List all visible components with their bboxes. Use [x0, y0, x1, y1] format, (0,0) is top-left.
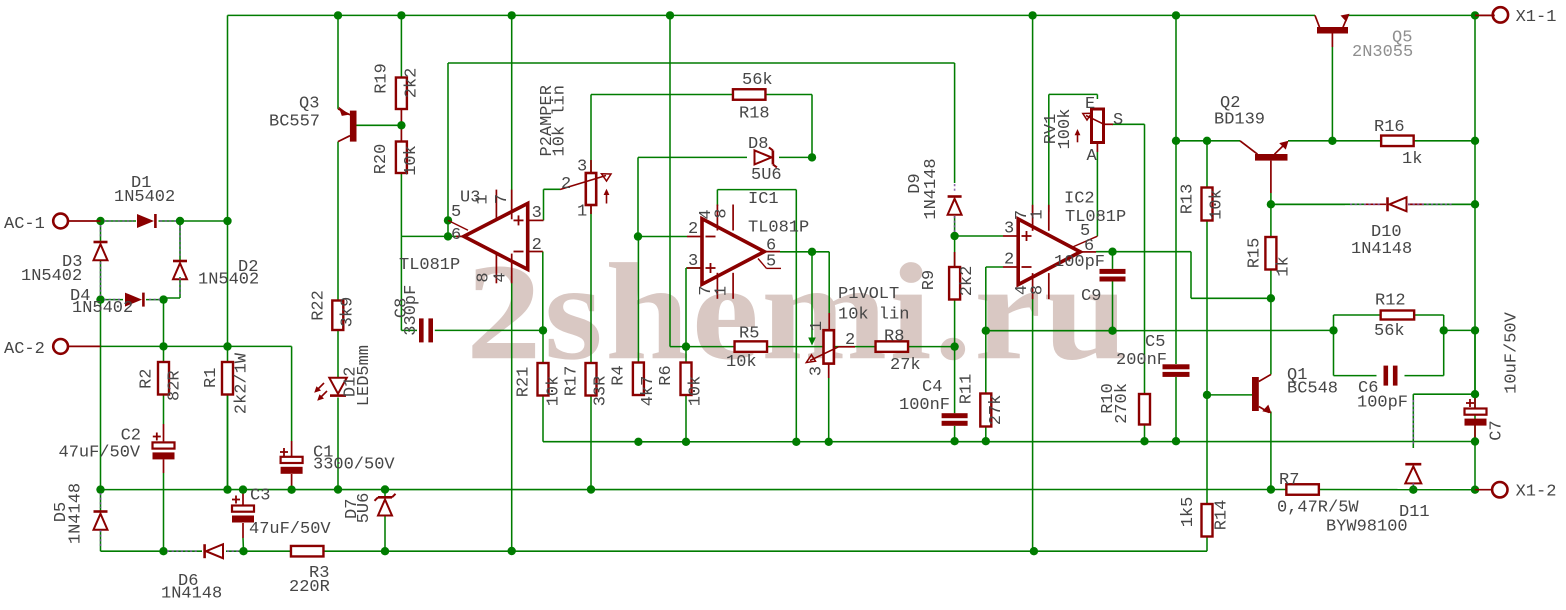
- diode D3: [94, 225, 108, 296]
- wire RV1 S to R10: [1112, 124, 1145, 394]
- junction 0V D5: [96, 485, 104, 493]
- wire R18 right to D8 cathode junction: [766, 95, 812, 158]
- junction mid rail IC1 pin4: [792, 438, 800, 446]
- svg-text:X1-2: X1-2: [1516, 483, 1557, 502]
- svg-text:A: A: [1087, 147, 1098, 166]
- resistor R12: [1381, 311, 1415, 320]
- diode D1: [104, 214, 176, 228]
- label RV1: [1042, 109, 1075, 150]
- svg-text:R5: R5: [739, 325, 759, 344]
- wire IC2 pin2 to R11: [986, 267, 1003, 394]
- svg-text:3k9: 3k9: [339, 297, 358, 328]
- wire P2AMPER pin3 to R18: [591, 95, 733, 174]
- wire C5 bottom: [1175, 377, 1177, 441]
- label D4: [70, 287, 133, 318]
- label R3: [289, 564, 330, 597]
- label R4: [610, 365, 659, 406]
- wire P2 wiper to U3 pin3: [544, 189, 561, 220]
- junction IC2 pin3 D9: [950, 232, 958, 240]
- wire R12/C6 box left: [1333, 315, 1335, 376]
- wire U3 output node to C8: [401, 236, 417, 330]
- svg-text:R14: R14: [1213, 500, 1232, 531]
- svg-text:56k: 56k: [742, 71, 773, 90]
- svg-text:Q3: Q3: [299, 95, 319, 114]
- wire X1-1 right column: [1474, 15, 1476, 489]
- wire R5 right to P1 wiper and R8: [767, 346, 876, 348]
- pin P1 numbers: [808, 321, 856, 376]
- wire C3 column: [242, 490, 245, 552]
- label C3: [249, 487, 331, 540]
- label R2: [138, 368, 185, 401]
- svg-text:3: 3: [532, 204, 542, 223]
- svg-text:1: 1: [808, 321, 827, 331]
- wire R12 row: [1334, 314, 1444, 316]
- diode D6: [167, 544, 240, 558]
- label R16: [1374, 118, 1422, 169]
- diode D9: [948, 184, 962, 233]
- wire Q1 base to R14 node: [1207, 394, 1252, 396]
- resistor R1: [222, 362, 233, 395]
- junction Q2 base R15: [1267, 200, 1275, 208]
- resistor R3: [291, 546, 324, 557]
- svg-text:R12: R12: [1375, 292, 1406, 311]
- op-amp IC1: [687, 205, 781, 299]
- capacitor C2: [153, 433, 175, 460]
- wire R1 column: [227, 347, 229, 363]
- pin P2 numbers: [561, 158, 587, 222]
- svg-text:3: 3: [577, 158, 587, 177]
- label D10: [1351, 223, 1412, 259]
- capacitor C5: [1163, 364, 1190, 377]
- svg-text:47uF/50V: 47uF/50V: [59, 444, 141, 463]
- junction D11 top branch: [1471, 390, 1479, 398]
- svg-text:200nF: 200nF: [1116, 351, 1167, 370]
- label D3: [21, 253, 82, 286]
- junction R13 top: [1203, 137, 1211, 145]
- label Q5: [1352, 29, 1413, 63]
- svg-text:P1VOLT: P1VOLT: [838, 285, 899, 304]
- svg-text:1N5402: 1N5402: [114, 188, 175, 207]
- svg-text:1: 1: [713, 286, 732, 296]
- wire R6 column to mid rail: [685, 395, 687, 442]
- svg-text:1N5402: 1N5402: [21, 267, 82, 286]
- label U3 value: [399, 256, 460, 275]
- svg-text:R1: R1: [202, 368, 221, 388]
- label D6: [161, 572, 222, 604]
- terminal X1-1: [1475, 7, 1508, 22]
- resistor R16: [1381, 136, 1414, 147]
- junction AC-1 left: [96, 217, 104, 225]
- svg-text:BC548: BC548: [1287, 380, 1338, 399]
- wire C8 right to R21/U3 pin2 node: [435, 329, 543, 331]
- svg-text:100pF: 100pF: [1357, 394, 1408, 413]
- junction U3 pin5: [444, 216, 452, 224]
- label D9: [906, 158, 941, 219]
- svg-text:1N4148: 1N4148: [67, 483, 86, 544]
- wire IC1 pin2 stub net: [638, 236, 687, 238]
- wire U3 pin7 supply: [511, 15, 513, 210]
- svg-text:1k: 1k: [1275, 256, 1294, 276]
- wire U3 output wire: [401, 235, 456, 237]
- svg-text:5: 5: [451, 203, 461, 222]
- wire 0V rail right of R7: [1319, 489, 1492, 491]
- label C1: [313, 444, 395, 475]
- wire D5 column: [100, 490, 102, 552]
- junction 0V D11: [1409, 486, 1417, 494]
- label C5: [1116, 333, 1167, 370]
- svg-text:C4: C4: [922, 378, 942, 397]
- resistor R6: [681, 363, 692, 396]
- svg-text:BYW98100: BYW98100: [1326, 518, 1408, 537]
- resistor R11: [980, 394, 991, 427]
- junction mid rail C5: [1172, 437, 1180, 445]
- wire U3 output feed to D9 (horizontal y=63): [448, 62, 955, 64]
- svg-text:2: 2: [561, 175, 571, 194]
- wire bridge right column D2: [164, 221, 181, 298]
- wire R11 bottom: [985, 427, 987, 442]
- wire R13 column: [1206, 141, 1208, 395]
- diode D2: [173, 226, 187, 294]
- svg-text:1: 1: [577, 203, 587, 222]
- junction AC-1 rail: [223, 217, 231, 225]
- resistor R2: [158, 362, 169, 395]
- svg-text:IC2: IC2: [1064, 190, 1095, 209]
- wire RV1 A to IC2 pin5: [1096, 152, 1098, 236]
- wire R22 to LED D12: [337, 330, 339, 377]
- wire 0V rail: [101, 489, 1287, 491]
- svg-text:R18: R18: [739, 105, 770, 124]
- wire D7 column: [384, 490, 386, 552]
- wire C7 bottom: [1474, 425, 1476, 442]
- wire R2 column: [163, 346, 165, 441]
- junction top rail IC2 pin7: [1028, 11, 1036, 19]
- label R15: [1246, 238, 1294, 277]
- wire D11 branch: [1413, 394, 1475, 448]
- wire vertical x954.6 down to D9: [954, 63, 956, 183]
- resistor R4: [633, 363, 644, 396]
- svg-text:5U6: 5U6: [751, 166, 782, 185]
- junction AC-2 R2: [159, 342, 167, 350]
- label R21: [515, 367, 564, 407]
- svg-text:X1-1: X1-1: [1516, 8, 1557, 27]
- svg-text:R17: R17: [563, 366, 582, 397]
- label C7: [1488, 311, 1522, 440]
- resistor R14: [1202, 504, 1213, 537]
- svg-text:IC1: IC1: [748, 190, 779, 209]
- diode D11: [1405, 400, 1421, 488]
- svg-text:3: 3: [688, 252, 698, 271]
- junction mid rail R6: [682, 438, 690, 446]
- svg-text:3: 3: [1004, 220, 1014, 239]
- wire x670 from top rail down to R5/R6 net: [669, 15, 671, 346]
- junction bottom rail D7: [381, 547, 389, 555]
- junction R12 box left: [1329, 326, 1337, 334]
- svg-text:1: 1: [474, 194, 493, 204]
- label P1VOLT: [838, 285, 909, 325]
- junction mid rail R11: [982, 437, 990, 445]
- svg-text:BC557: BC557: [269, 113, 320, 132]
- wire U3 pin2 column: [542, 252, 544, 331]
- label AC-2: [4, 340, 45, 359]
- svg-text:2: 2: [1004, 251, 1014, 270]
- svg-text:270k: 270k: [1113, 383, 1132, 424]
- junction 0V Q1 emitter: [1267, 485, 1275, 493]
- label Q1: [1287, 366, 1338, 399]
- potentiometer P1VOLT: [806, 313, 855, 378]
- wire IC2 minus net junction to C9 net: [986, 330, 1113, 332]
- wire D9 bottom to IC2 pin3: [955, 216, 1003, 267]
- svg-text:R20: R20: [372, 144, 391, 175]
- svg-text:R7: R7: [1279, 471, 1299, 490]
- svg-text:TL081P: TL081P: [1065, 208, 1126, 227]
- wire bottom negative rail: [101, 550, 1034, 552]
- svg-text:8: 8: [713, 208, 732, 218]
- svg-text:10k lin: 10k lin: [550, 85, 569, 156]
- junction IC2 minus net: [982, 327, 990, 335]
- potentiometer P2AMPER: [560, 160, 611, 214]
- svg-text:2k2: 2k2: [958, 266, 977, 297]
- wire IC1 output: [780, 251, 812, 253]
- svg-text:S: S: [1113, 111, 1123, 130]
- svg-text:1N5402: 1N5402: [198, 271, 259, 290]
- wire D12 to 0V rail: [337, 398, 339, 490]
- wire x1176 from top rail to C5: [1175, 15, 1177, 364]
- svg-text:10k: 10k: [1208, 189, 1227, 220]
- resistor R10: [1139, 394, 1150, 425]
- resistor R18: [733, 89, 766, 100]
- wire P1 pin3 bottom: [828, 378, 830, 442]
- wire IC2 output to C9 and Q1 collector net: [1096, 252, 1271, 299]
- junction top rail U3 pin7: [508, 11, 516, 19]
- junction Q5 base: [1328, 137, 1336, 145]
- svg-text:10k: 10k: [402, 145, 421, 176]
- wire C4 column: [954, 347, 956, 442]
- wire R17 column: [590, 205, 592, 490]
- svg-text:2: 2: [532, 236, 542, 255]
- label P2AMPER: [538, 85, 570, 156]
- svg-text:100nF: 100nF: [899, 396, 950, 415]
- label U3: [460, 189, 480, 208]
- wire R19-R20 base node: [400, 110, 402, 142]
- label D2: [198, 258, 259, 290]
- led D12: [314, 378, 347, 401]
- label D1: [114, 174, 175, 207]
- diode D8 zener: [755, 147, 777, 167]
- wire R1 bottom: [227, 395, 229, 490]
- svg-text:4k7: 4k7: [639, 376, 658, 407]
- wire C6 row: [1334, 375, 1444, 377]
- wire R15 bottom to IC2 out node: [1270, 270, 1272, 299]
- wire IC1 pin3 to R6 top: [686, 268, 702, 363]
- capacitor C1: [280, 448, 303, 474]
- label R7: [1277, 471, 1359, 518]
- junction R8 right: [950, 342, 958, 350]
- wire R14 column: [1034, 395, 1207, 551]
- wire R12/C6 box right: [1443, 315, 1445, 376]
- terminal AC-1: [53, 214, 100, 229]
- wire arrow into P1 wiper: [808, 252, 816, 346]
- svg-text:1k: 1k: [1402, 150, 1422, 169]
- wire R9 stub top: [954, 252, 956, 267]
- svg-text:E: E: [1085, 95, 1095, 114]
- junction bottom rail C3: [239, 547, 247, 555]
- svg-text:2N3055: 2N3055: [1352, 43, 1413, 62]
- svg-text:C3: C3: [250, 487, 270, 506]
- resistor R20: [396, 142, 407, 174]
- wire AC-2 net: [101, 345, 292, 347]
- label C8: [393, 285, 421, 336]
- svg-text:R11: R11: [958, 374, 977, 405]
- wire C7 top: [1474, 330, 1476, 408]
- label Q3: [269, 95, 320, 132]
- pin IC2 numbers: [1004, 209, 1094, 295]
- svg-text:AC-2: AC-2: [4, 340, 45, 359]
- label C6: [1357, 379, 1408, 413]
- label R18: [739, 71, 773, 124]
- junction 0V X1-2: [1471, 486, 1479, 494]
- wire Q1 collector: [1270, 298, 1272, 374]
- svg-text:R2: R2: [138, 368, 157, 388]
- resistor R13: [1202, 188, 1213, 221]
- label C4: [899, 378, 950, 415]
- wire left vertical from top rail to 0V rail: [227, 15, 229, 489]
- wire R21 column: [543, 330, 638, 441]
- diode D4: [104, 293, 160, 307]
- wire R19 top: [400, 15, 402, 77]
- wire bridge left column: [100, 221, 102, 490]
- svg-text:3300/50V: 3300/50V: [313, 456, 395, 475]
- svg-text:R4: R4: [610, 365, 629, 385]
- diode D5: [94, 493, 108, 548]
- junction mid rail C4: [950, 437, 958, 445]
- junction U3 pin6: [444, 232, 452, 240]
- label R12: [1374, 292, 1406, 342]
- wire Q3 base: [357, 124, 402, 126]
- junction mid rail R4: [634, 438, 642, 446]
- wire R20 bottom to U3 output node: [400, 174, 402, 236]
- svg-text:1N4148: 1N4148: [922, 158, 941, 219]
- svg-text:R15: R15: [1246, 238, 1265, 269]
- svg-text:R6: R6: [657, 365, 676, 385]
- svg-text:R13: R13: [1179, 184, 1198, 215]
- junction bottom rail U3 pin4: [508, 547, 516, 555]
- capacitor C9: [1100, 269, 1126, 282]
- diode D10: [1271, 197, 1475, 211]
- svg-text:R16: R16: [1374, 118, 1405, 137]
- junction IC1 pin2: [634, 232, 642, 240]
- svg-text:10k: 10k: [726, 353, 757, 372]
- junction mid rail P1 pin3: [825, 438, 833, 446]
- op-amp IC2: [1003, 205, 1097, 299]
- svg-text:2: 2: [845, 331, 855, 350]
- label D5: [52, 483, 86, 544]
- svg-text:TL081P: TL081P: [399, 256, 460, 275]
- svg-text:33R: 33R: [592, 376, 611, 407]
- wire C9 column: [1112, 252, 1114, 331]
- svg-text:56k: 56k: [1374, 322, 1405, 341]
- label R22: [310, 290, 358, 327]
- pin IC1 numbers: [688, 208, 776, 296]
- wire vertical x448 to U3 pins 5/6: [447, 63, 449, 236]
- resistor R7: [1286, 484, 1319, 495]
- resistor R5: [735, 341, 768, 352]
- op-amp U3: [448, 190, 544, 284]
- svg-text:0,47R/5W: 0,47R/5W: [1277, 499, 1359, 518]
- watermark 2shemi.ru: [466, 234, 1130, 392]
- junction bottom rail IC2 pin4: [1030, 547, 1038, 555]
- wire IC2 pin7 supply from top rail: [1032, 15, 1034, 212]
- junction top rail Q3: [334, 11, 342, 19]
- label C2: [59, 427, 142, 463]
- svg-text:5: 5: [1080, 222, 1090, 241]
- svg-text:82R: 82R: [165, 370, 184, 401]
- label Q2: [1214, 94, 1265, 130]
- wire IC1 pin2 column down to R4: [637, 237, 639, 363]
- label X1-1: [1516, 8, 1557, 27]
- transistor Q1: [1252, 375, 1272, 414]
- svg-text:R22: R22: [310, 290, 329, 321]
- svg-text:1N5402: 1N5402: [72, 299, 133, 318]
- svg-text:BD139: BD139: [1214, 111, 1265, 130]
- svg-text:100pF: 100pF: [1054, 253, 1105, 272]
- label D12: [341, 345, 374, 406]
- junction Q3 base: [397, 121, 405, 129]
- svg-text:1N4148: 1N4148: [161, 585, 222, 604]
- junction IC2 output: [1108, 248, 1116, 256]
- label D11: [1326, 503, 1430, 537]
- label R17: [563, 366, 611, 407]
- resistor R15: [1265, 237, 1276, 270]
- svg-text:2: 2: [688, 220, 698, 239]
- svg-text:5U6: 5U6: [355, 493, 374, 524]
- junction 0V D12: [334, 485, 342, 493]
- diode D7 zener: [375, 494, 396, 516]
- label C9: [1054, 253, 1105, 306]
- svg-text:4: 4: [492, 272, 511, 282]
- wire D4 row: [101, 298, 164, 346]
- junction D8 cathode: [808, 153, 816, 161]
- svg-text:220R: 220R: [289, 578, 330, 597]
- label R13: [1179, 184, 1227, 220]
- resistor R8: [876, 341, 909, 352]
- junction R21 top: [539, 326, 547, 334]
- capacitor C6: [1384, 366, 1398, 386]
- junction mid rail R10: [1140, 437, 1148, 445]
- label IC1: [748, 190, 809, 238]
- capacitor C7: [1465, 399, 1487, 426]
- wire Q5 base: [1331, 47, 1333, 141]
- resistor R9: [949, 267, 960, 300]
- junction Q1 base: [1203, 391, 1211, 399]
- wire R8 right junction to R9/C4: [908, 346, 955, 348]
- junction top rail x670: [666, 11, 674, 19]
- svg-text:100k: 100k: [1056, 109, 1075, 150]
- svg-text:6: 6: [451, 226, 461, 245]
- capacitor C3: [232, 496, 254, 523]
- resistor R19: [396, 78, 407, 110]
- junction IC1 output: [808, 248, 816, 256]
- svg-text:27k: 27k: [890, 356, 921, 375]
- wire top rail right segment to X1-1: [1348, 14, 1494, 16]
- pin U3 numbers: [451, 194, 542, 283]
- junction 0V R17: [587, 485, 595, 493]
- capacitor C8: [419, 318, 433, 342]
- svg-text:C7: C7: [1488, 420, 1507, 440]
- svg-text:R19: R19: [373, 63, 392, 94]
- wire RV1 E loop to IC2 pin1: [1049, 94, 1098, 212]
- transistor Q3: [338, 107, 357, 142]
- junction R15 bottom: [1267, 294, 1275, 302]
